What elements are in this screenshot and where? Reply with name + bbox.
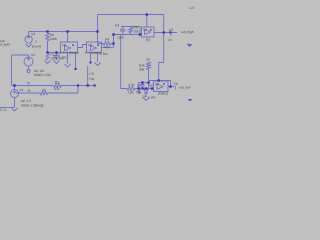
svg-text:2: 2 [35, 40, 37, 44]
svg-text:100n: 100n [117, 36, 125, 40]
svg-text:AC 1 0: AC 1 0 [21, 99, 31, 103]
svg-text:V1: V1 [20, 88, 24, 92]
svg-text:SIN(0 1.5[freq]): SIN(0 1.5[freq]) [21, 104, 44, 108]
svg-text:R3: R3 [55, 80, 59, 84]
svg-text:1.8%: 1.8% [59, 56, 67, 60]
svg-text:d_light: d_light [0, 43, 10, 47]
svg-text:400k: 400k [50, 37, 58, 41]
svg-text:10k: 10k [136, 91, 142, 95]
svg-text:4.7k: 4.7k [128, 83, 135, 87]
svg-text:1k: 1k [146, 57, 150, 61]
svg-text:out_high: out_high [181, 30, 194, 34]
svg-text:out_low: out_low [179, 86, 191, 90]
svg-text:m: m [27, 81, 30, 85]
svg-text:C5: C5 [169, 28, 173, 32]
svg-text:47k: 47k [104, 46, 110, 50]
svg-text:1.5m: 1.5m [100, 52, 108, 56]
svg-text:1.8%: 1.8% [148, 96, 156, 100]
svg-text:1k: 1k [42, 88, 46, 92]
svg-text:-1.5: -1.5 [189, 6, 195, 10]
svg-text:40k: 40k [139, 68, 145, 72]
svg-text:47k: 47k [54, 87, 60, 91]
svg-text:5.7s: 5.7s [0, 108, 7, 112]
svg-text:1k: 1k [27, 89, 31, 93]
svg-text:V2: V2 [31, 53, 35, 57]
svg-text:Exx=0: Exx=0 [32, 45, 41, 49]
svg-text:V4: V4 [31, 32, 35, 36]
svg-text:P-T (DMG): P-T (DMG) [85, 51, 101, 55]
svg-text:LTI: LTI [90, 72, 95, 76]
svg-text:Rw: Rw [90, 77, 95, 81]
svg-text:MF P-T (DMG): MF P-T (DMG) [57, 51, 79, 55]
svg-text:10k: 10k [134, 30, 140, 34]
svg-text:R4: R4 [105, 38, 109, 42]
svg-text:12k: 12k [128, 91, 134, 95]
svg-text:(DMG): (DMG) [158, 92, 168, 96]
svg-text:C4: C4 [115, 24, 119, 28]
svg-text:1n: 1n [168, 38, 172, 42]
svg-text:SIN(0 1.5k): SIN(0 1.5k) [34, 73, 51, 77]
svg-text:C6: C6 [174, 82, 178, 86]
svg-text:[±]: [±] [146, 38, 150, 42]
svg-text:1n: 1n [142, 95, 146, 99]
